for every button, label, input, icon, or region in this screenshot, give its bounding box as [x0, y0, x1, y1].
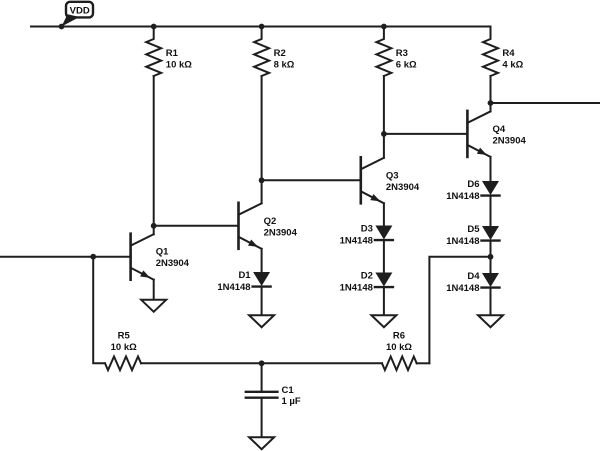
junction rail-R2 — [259, 24, 265, 30]
resistor R1 — [146, 27, 192, 77]
svg-text:Q1: Q1 — [156, 247, 169, 258]
diode D5 1N4148 — [446, 224, 499, 247]
wire D3 to D2 — [383, 240, 385, 272]
svg-text:Q2: Q2 — [264, 216, 277, 227]
svg-text:R3: R3 — [396, 48, 408, 59]
svg-text:R6: R6 — [393, 330, 405, 341]
svg-text:1N4148: 1N4148 — [446, 236, 479, 247]
svg-text:2N3904: 2N3904 — [156, 258, 190, 269]
wire input to Q1 base — [0, 256, 131, 258]
wire Q2 emitter to D1 — [261, 249, 263, 272]
svg-text:2N3904: 2N3904 — [264, 227, 298, 238]
junction input-R5 branch — [90, 254, 96, 260]
resistor R5 — [105, 330, 141, 370]
wire R2 to Q2 collector — [261, 76, 263, 203]
junction D5-D4-R6 branch — [488, 254, 494, 260]
ground below D1 — [249, 315, 274, 327]
svg-text:R1: R1 — [166, 48, 179, 59]
wire D6 to D5 — [490, 196, 492, 226]
junction Q3 collector node — [381, 131, 387, 137]
svg-text:D5: D5 — [467, 224, 480, 235]
ground below D4 — [478, 315, 503, 327]
transistor Q3 2N3904 — [361, 157, 420, 203]
transistor Q4 2N3904 — [467, 111, 526, 157]
resistor R2 — [254, 27, 295, 77]
svg-text:1N4148: 1N4148 — [340, 282, 373, 293]
svg-text:10 kΩ: 10 kΩ — [111, 342, 137, 353]
wire Q3 collector to Q4 base — [384, 133, 468, 135]
svg-text:1N4148: 1N4148 — [446, 191, 479, 202]
resistor R6 — [382, 330, 417, 370]
ground below Q1 — [141, 300, 166, 312]
svg-text:1 µF: 1 µF — [282, 396, 301, 407]
diode D1 1N4148 — [217, 270, 270, 293]
net flag VDD — [59, 2, 93, 30]
wire Q4 emitter to D6 — [490, 157, 492, 181]
svg-text:D1: D1 — [238, 270, 251, 281]
resistor R3 — [376, 27, 417, 77]
wire R1 to Q1 collector — [153, 76, 155, 234]
junction rail-R1 — [151, 24, 157, 30]
svg-text:R5: R5 — [118, 330, 131, 341]
wire D1 to ground — [261, 287, 263, 316]
wire R4 to Q4 collector — [490, 76, 492, 111]
wire D5 to D4 — [490, 241, 492, 273]
svg-text:6 kΩ: 6 kΩ — [396, 60, 417, 71]
svg-text:D6: D6 — [467, 179, 479, 190]
svg-text:10 kΩ: 10 kΩ — [386, 342, 412, 353]
svg-text:4 kΩ: 4 kΩ — [502, 60, 523, 71]
wire R5 to C1 node — [141, 362, 382, 364]
diode D6 1N4148 — [446, 179, 499, 202]
wire R6 to branch corner — [417, 362, 430, 364]
wire D4 to ground — [490, 288, 492, 316]
svg-text:1N4148: 1N4148 — [446, 283, 479, 294]
junction R4-Q4-output — [488, 100, 494, 106]
wire R3 to Q3 collector — [383, 76, 385, 158]
transistor Q1 2N3904 — [131, 234, 190, 280]
svg-text:8 kΩ: 8 kΩ — [274, 60, 295, 71]
svg-text:1N4148: 1N4148 — [340, 235, 373, 246]
diode D3 1N4148 — [340, 224, 393, 247]
svg-text:D4: D4 — [467, 271, 480, 282]
svg-text:1N4148: 1N4148 — [217, 282, 250, 293]
wire input branch down to R5 — [93, 257, 105, 364]
wire output from R4/Q4 node to right edge — [491, 102, 600, 104]
junction bottom wire - C1 — [259, 360, 265, 366]
svg-text:C1: C1 — [282, 385, 295, 396]
svg-text:D2: D2 — [361, 271, 373, 282]
capacitor C1 1uF — [246, 363, 301, 437]
transistor Q2 2N3904 — [239, 203, 298, 249]
svg-text:VDD: VDD — [70, 5, 90, 16]
svg-text:2N3904: 2N3904 — [493, 135, 527, 146]
wire Q1 collector to Q2 base — [154, 225, 239, 227]
ground below D2 — [371, 315, 396, 327]
wire VDD top rail — [31, 26, 491, 28]
diode D2 1N4148 — [340, 271, 393, 294]
svg-text:Q4: Q4 — [493, 124, 506, 135]
wire D2 to ground — [383, 287, 385, 315]
svg-text:D3: D3 — [361, 224, 373, 235]
wire D5-D4 node to R6 branch — [429, 257, 490, 364]
svg-text:10 kΩ: 10 kΩ — [166, 60, 192, 71]
wire Q1 emitter to ground — [153, 280, 155, 300]
svg-text:R2: R2 — [274, 48, 286, 59]
junction rail-R3 — [381, 24, 387, 30]
junction Q2 collector node — [259, 177, 265, 183]
svg-text:Q3: Q3 — [386, 170, 399, 181]
resistor R4 — [483, 27, 524, 77]
wire Q2 collector to Q3 base — [262, 179, 361, 181]
diode D4 1N4148 — [446, 271, 499, 294]
svg-text:R4: R4 — [502, 48, 515, 59]
ground below C1 — [249, 437, 274, 449]
junction Q1 collector node — [151, 223, 157, 229]
svg-text:2N3904: 2N3904 — [386, 182, 420, 193]
wire Q3 emitter to D3 — [383, 203, 385, 225]
